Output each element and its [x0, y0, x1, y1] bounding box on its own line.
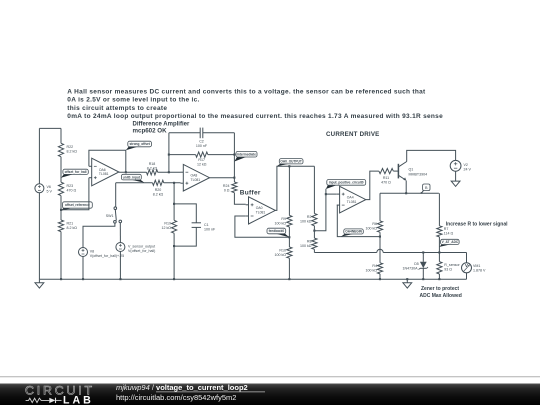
- svg-text:V_sensor_output: V_sensor_output: [128, 244, 155, 248]
- wire to R2: [313, 166, 315, 213]
- wire to R22: [60, 128, 62, 143]
- resistor R21: [58, 220, 77, 232]
- svg-text:12 kΩ: 12 kΩ: [162, 226, 172, 230]
- junction feedback node: [288, 236, 290, 238]
- svg-text:V_AT_ADC: V_AT_ADC: [442, 240, 459, 244]
- wire OA0 output: [275, 166, 314, 210]
- svg-text:100 nF: 100 nF: [196, 144, 208, 148]
- junction ground rail: [406, 278, 408, 280]
- wire to R9: [288, 166, 290, 215]
- node strong_offset: [126, 141, 152, 150]
- svg-text:R22: R22: [67, 145, 74, 149]
- wire V_sensor to rail: [119, 252, 121, 280]
- svg-text:OA6: OA6: [99, 168, 106, 172]
- wire OA4 - input: [337, 205, 380, 237]
- svg-text:100 kΩ: 100 kΩ: [366, 269, 378, 273]
- svg-text:100 kΩ: 100 kΩ: [300, 244, 312, 248]
- svg-text:intermediate: intermediate: [237, 152, 256, 156]
- svg-text:http://circuitlab.com/csy8542w: http://circuitlab.com/csy8542wfy5m2: [116, 393, 236, 402]
- svg-text:R19: R19: [164, 222, 171, 226]
- wire C2 left: [169, 132, 200, 134]
- svg-text:D5: D5: [414, 262, 419, 266]
- svg-text:R23: R23: [67, 184, 74, 188]
- svg-text:1.878 V: 1.878 V: [473, 268, 486, 272]
- wire V6 bottom: [38, 193, 40, 279]
- annotation text line 1: [67, 88, 426, 95]
- wire R24 to buffer +: [234, 193, 245, 205]
- junction R17 right: [233, 154, 235, 156]
- op-amp OA4: [337, 186, 366, 213]
- wire OA4 output to R11: [366, 171, 379, 200]
- svg-text:LAB: LAB: [63, 394, 94, 405]
- annotation text line 2: [67, 97, 199, 104]
- svg-text:offset_for_hall: offset_for_hall: [65, 170, 87, 174]
- wire R20 to OA8 +: [164, 182, 181, 184]
- junction OA6 output feedback: [125, 171, 127, 173]
- svg-text:100 kΩ: 100 kΩ: [275, 221, 287, 225]
- junction R10 rail: [288, 278, 290, 280]
- op-amp OA6: [89, 158, 119, 186]
- zener diode D5: [403, 262, 429, 271]
- footer url text: [116, 393, 236, 402]
- svg-text:R21: R21: [67, 222, 74, 226]
- svg-text:R18: R18: [149, 162, 156, 166]
- wire R11 to Q1 base: [393, 170, 398, 172]
- svg-text:100 kΩ: 100 kΩ: [366, 227, 378, 231]
- node feedback0: [267, 228, 289, 237]
- logo wire doodle with resistor and diode: [26, 398, 62, 403]
- wire C1 branch bottom: [174, 227, 196, 246]
- wire R2 to R8: [313, 226, 315, 238]
- junction V_sensor rail: [119, 278, 121, 280]
- svg-text:A Hall sensor measures DC curr: A Hall sensor measures DC current and co…: [67, 88, 426, 95]
- junction R19 tap: [173, 182, 175, 184]
- junction R_sensor rail: [438, 278, 440, 280]
- wire R21 to ground rail: [60, 232, 62, 280]
- node V_AT_ADC: [439, 239, 459, 247]
- svg-text:this circuit attempts to creat: this circuit attempts to create: [67, 105, 167, 112]
- svg-text:V(offset_for_hall)+.25: V(offset_for_hall)+.25: [90, 254, 124, 258]
- logo CIRCUIT outline text: [25, 383, 95, 397]
- svg-text:V6: V6: [47, 185, 51, 189]
- wire to OA4 + input: [314, 189, 326, 231]
- wire node to R4: [379, 237, 381, 263]
- voltmeter VM1: [462, 263, 486, 273]
- svg-text:0A is 2.5V or some level input: 0A is 2.5V or some level input to the ic…: [67, 97, 199, 104]
- wire R17 right: [208, 154, 235, 156]
- node offset_reference: [61, 202, 92, 211]
- svg-text:R24: R24: [223, 184, 230, 188]
- svg-text:R4: R4: [372, 264, 377, 268]
- annotation CURRENT DRIVE: [326, 131, 379, 138]
- node input_positive_circuit0: [326, 180, 366, 190]
- resistor R22: [58, 143, 77, 156]
- wire SW1 to V_sensor: [119, 223, 121, 243]
- svg-text:unit0_input: unit0_input: [123, 175, 141, 179]
- wire to R6: [379, 193, 381, 221]
- svg-text:R_sensor: R_sensor: [444, 263, 460, 267]
- svg-text:TL081: TL081: [347, 200, 357, 204]
- svg-text:8.2 kΩ: 8.2 kΩ: [67, 226, 78, 230]
- wire C2 right: [203, 132, 235, 134]
- wire R23 to R21: [60, 196, 62, 220]
- svg-text:ADC Max Allowed: ADC Max Allowed: [420, 293, 462, 299]
- wire emitter to R7: [438, 193, 440, 226]
- resistor R19: [162, 220, 177, 233]
- svg-text:Zener to protect: Zener to protect: [421, 286, 459, 292]
- resistor R11: [379, 169, 393, 185]
- wire OA6 + input to offset_reference: [61, 178, 89, 210]
- resistor R23: [58, 182, 76, 195]
- resistor R2: [300, 214, 317, 226]
- wire hop over R4 branch: [377, 249, 383, 252]
- wire down to SW1: [115, 183, 117, 207]
- footer title text: [116, 383, 265, 392]
- svg-text:R20: R20: [155, 188, 162, 192]
- resistor R9: [275, 215, 292, 227]
- separator line above footer: [0, 376, 540, 378]
- svg-text:V8: V8: [90, 249, 94, 253]
- resistor R4: [366, 263, 383, 274]
- svg-text:Q1: Q1: [409, 168, 414, 172]
- voltage source V2: [450, 160, 471, 171]
- junction C1 top: [173, 203, 175, 205]
- svg-text:R17: R17: [198, 158, 205, 162]
- junction OA4 + wire: [325, 193, 327, 195]
- svg-text:OA0_OUTPUT: OA0_OUTPUT: [280, 160, 301, 164]
- resistor R24: [223, 182, 237, 193]
- svg-text:0 Ω: 0 Ω: [224, 189, 230, 193]
- wire to VM1: [466, 253, 468, 263]
- resistor R17: [196, 152, 208, 166]
- svg-text:0mA to 24mA loop output propor: 0mA to 24mA loop output proportional to …: [67, 113, 443, 120]
- annotation text line 4: [67, 113, 443, 120]
- resistor R6: [366, 221, 383, 232]
- wire bottom rail: [39, 278, 466, 280]
- svg-text:Buffer: Buffer: [240, 189, 261, 196]
- svg-text:input_positive_circuit0: input_positive_circuit0: [329, 181, 364, 185]
- wire R6 to node: [379, 232, 381, 236]
- svg-text:R6: R6: [372, 222, 377, 226]
- svg-text:100 kΩ: 100 kΩ: [300, 220, 312, 224]
- wire VM1 to rail: [466, 273, 468, 279]
- wire C1 branch top: [174, 204, 196, 223]
- wire R22 to R23: [60, 157, 62, 183]
- wire R8 to sense rail: [313, 249, 315, 252]
- svg-text:8.2 kΩ: 8.2 kΩ: [67, 149, 78, 153]
- wire R17 left: [169, 154, 196, 156]
- wire OA4 + stub: [326, 193, 337, 195]
- ground near zener: [403, 279, 412, 288]
- svg-text:R11: R11: [383, 176, 389, 180]
- node unit0_input: [121, 174, 144, 183]
- node OA4NEGIN: [341, 229, 363, 237]
- junction emitter: [405, 192, 407, 194]
- wire feedback vertical: [168, 133, 170, 173]
- svg-text:feedback0: feedback0: [269, 229, 285, 233]
- svg-text:470 Ω: 470 Ω: [381, 180, 391, 184]
- logo LAB text: [63, 394, 94, 405]
- junction V8 rail: [82, 278, 84, 280]
- wire top left horizontal: [39, 127, 61, 129]
- annotation increase R: [446, 222, 508, 228]
- svg-text:TL081: TL081: [99, 172, 109, 176]
- svg-text:Increase R to lower signal: Increase R to lower signal: [446, 222, 508, 228]
- svg-text:C1: C1: [204, 223, 209, 227]
- resistor R10: [275, 247, 292, 258]
- svg-text:1N4730A: 1N4730A: [403, 267, 419, 271]
- wire intermediate vertical: [233, 133, 235, 182]
- wire sense rail right: [383, 252, 466, 254]
- node OA0_OUTPUT: [277, 159, 303, 167]
- wire to R19: [173, 183, 175, 221]
- svg-text:CURRENT DRIVE: CURRENT DRIVE: [326, 131, 379, 138]
- junction OA4NEGIN R6 R4: [379, 236, 381, 238]
- wire OA0 feedback: [235, 216, 290, 237]
- wire R10 to rail: [288, 258, 290, 279]
- wire SW1 to V8: [83, 223, 115, 247]
- svg-text:100 nF: 100 nF: [204, 228, 216, 232]
- junction OA0 out R9: [288, 165, 290, 167]
- svg-text:OA8: OA8: [191, 174, 198, 178]
- wire sense rail left: [314, 252, 376, 254]
- svg-text:R8: R8: [307, 240, 312, 244]
- resistor R7: [437, 226, 454, 237]
- annotation Buffer: [240, 189, 261, 196]
- resistor R20: [153, 180, 164, 197]
- ground: [35, 279, 44, 288]
- junction R18 line: [168, 171, 170, 173]
- svg-text:V(offset_for_hall): V(offset_for_hall): [128, 249, 155, 253]
- junction D5 rail: [422, 278, 424, 280]
- svg-text:TL081: TL081: [191, 178, 201, 182]
- svg-text:TL081: TL081: [256, 211, 266, 215]
- svg-text:114 Ω: 114 Ω: [444, 232, 454, 236]
- wire V8 to rail: [82, 257, 84, 280]
- svg-text:offset_reference: offset_reference: [65, 203, 90, 207]
- junction D5 sense: [422, 251, 424, 253]
- svg-text:R10: R10: [279, 248, 286, 252]
- svg-text:R2: R2: [307, 215, 312, 219]
- wire OA6 feedback: [89, 150, 126, 172]
- wire OA6 output: [119, 171, 147, 173]
- svg-text:470 Ω: 470 Ω: [67, 188, 77, 192]
- wire R9 to node: [288, 227, 290, 247]
- node intermediate: [234, 151, 257, 161]
- wire R_sensor to rail: [438, 274, 440, 279]
- svg-text:12 kΩ: 12 kΩ: [197, 162, 207, 166]
- wire V6 top to rail: [38, 128, 40, 183]
- svg-text:MMBT3904: MMBT3904: [409, 172, 428, 176]
- svg-text:VM1: VM1: [473, 264, 480, 268]
- svg-text:Difference Amplifier: Difference Amplifier: [133, 122, 190, 128]
- voltage source V8: [79, 248, 125, 258]
- svg-text:SW1: SW1: [106, 214, 114, 218]
- svg-text:B: B: [425, 186, 428, 190]
- op-amp OA8: [181, 164, 210, 191]
- svg-text:mcp602 OK: mcp602 OK: [133, 128, 168, 135]
- junction R7 sense: [438, 251, 440, 253]
- svg-text:C2: C2: [199, 140, 204, 144]
- annotation zener protect: [420, 286, 462, 299]
- node offset_for_hall: [61, 169, 88, 178]
- annotation text line 3: [67, 105, 167, 112]
- footer bar: [0, 384, 540, 405]
- wire Q1 collector: [407, 150, 456, 161]
- junction R21 rail: [60, 278, 62, 280]
- voltage source V_sensor_output: [116, 243, 155, 253]
- voltage source V6: [35, 184, 53, 194]
- wire OA8 output: [210, 177, 235, 179]
- svg-text:R9: R9: [281, 217, 286, 221]
- wire R7 to sense node: [438, 237, 440, 253]
- svg-text:V2: V2: [464, 163, 468, 167]
- wire V2 to ground: [455, 171, 457, 177]
- wire R4 to rail: [379, 274, 381, 279]
- capacitor C1: [192, 223, 216, 232]
- ground at V2: [451, 178, 460, 187]
- junction R2 R8: [313, 230, 315, 232]
- svg-text:5 V: 5 V: [47, 190, 53, 194]
- resistor R_sensor: [437, 262, 461, 274]
- annotation mcp602 OK: [133, 128, 168, 135]
- annotation Difference Amplifier: [133, 122, 190, 128]
- svg-text:OA0: OA0: [256, 206, 263, 210]
- junction feedback R17 left: [168, 154, 170, 156]
- wire R19 to rail: [173, 233, 175, 279]
- wire emitter rail: [380, 192, 439, 194]
- wire D5 to rail: [422, 268, 424, 279]
- resistor R18: [147, 162, 158, 175]
- wire to D5: [422, 253, 424, 262]
- svg-text:mjkuwp94 / voltage_to_current_: mjkuwp94 / voltage_to_current_loop2: [116, 383, 248, 392]
- svg-text:OA4NEGIN: OA4NEGIN: [345, 230, 362, 234]
- op-amp OA0 buffer: [246, 197, 276, 224]
- transistor Q1 MMBT3904: [398, 162, 427, 181]
- svg-text:93 Ω: 93 Ω: [444, 268, 452, 272]
- svg-text:24 V: 24 V: [464, 168, 472, 172]
- svg-text:8.2 kΩ: 8.2 kΩ: [147, 166, 158, 170]
- wire to R_sensor: [438, 253, 440, 262]
- junction R19 rail: [173, 278, 175, 280]
- svg-text:strong_offset: strong_offset: [130, 142, 151, 146]
- resistor R8: [300, 238, 317, 249]
- svg-text:OA4: OA4: [347, 195, 354, 199]
- wire Q1 emitter: [405, 181, 407, 194]
- junction at offset_reference: [60, 209, 62, 211]
- wire R20 line: [116, 182, 153, 184]
- svg-text:R7: R7: [444, 227, 449, 231]
- junction OA8 output: [233, 177, 235, 179]
- junction R4 rail: [379, 278, 381, 280]
- capacitor C2: [196, 128, 208, 149]
- wire R18 to OA8: [158, 171, 181, 173]
- switch SW1: [106, 207, 122, 223]
- junction C1 bottom: [173, 245, 175, 247]
- node B: [421, 184, 430, 194]
- svg-text:8.2 kΩ: 8.2 kΩ: [153, 193, 164, 197]
- svg-text:100 kΩ: 100 kΩ: [275, 253, 287, 257]
